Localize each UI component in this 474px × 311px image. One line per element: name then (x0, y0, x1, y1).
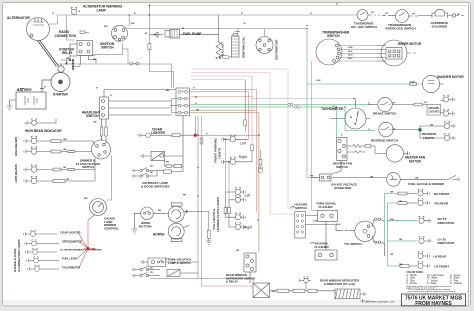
svg-text:HIGH BEAM INDICATOR: HIGH BEAM INDICATOR (25, 129, 62, 133)
tachometer (330, 99, 370, 129)
label trunk or hatch lamp and switch (166, 258, 191, 265)
svg-text:UW: UW (93, 122, 97, 124)
lamp front parking right (222, 157, 252, 164)
svg-text:LGN: LGN (310, 243, 315, 245)
label high beams (14, 137, 18, 156)
svg-text:CONNECTION: CONNECTION (55, 34, 77, 38)
svg-text:INDICATOR: INDICATOR (438, 241, 455, 245)
node gauge lamp feed (87, 247, 90, 250)
svg-text:SWITCH: SWITCH (295, 206, 307, 210)
resistor inline v252 (251, 145, 254, 162)
svg-text:RH REAR: RH REAR (435, 202, 450, 206)
wire green wiper drop (312, 61, 318, 210)
resistor horn drop (206, 212, 212, 245)
svg-text:GR: GR (390, 254, 394, 256)
label heater fan switch (333, 161, 352, 169)
resistor headlight drop 1 (100, 127, 103, 136)
switch door 1 (132, 168, 163, 173)
resistor inline v245 (244, 80, 247, 132)
brake switch (368, 97, 414, 111)
label alternator (7, 16, 30, 20)
svg-text:WIPER MOTOR: WIPER MOTOR (398, 42, 422, 46)
svg-text:STABILIZER: STABILIZER (334, 186, 352, 190)
sender fuel variable resistor (443, 175, 460, 181)
svg-text:OIL PRESSURE/WATER TEMPERATURE: OIL PRESSURE/WATER TEMPERATURE (60, 249, 102, 252)
label rh ts indicator (438, 217, 455, 225)
svg-text:FUEL PUMP: FUEL PUMP (183, 32, 202, 36)
wire red band upper (191, 69, 295, 214)
label oil pressure water temperature (60, 249, 102, 252)
mark bottom credit (360, 299, 395, 304)
label distributor (275, 39, 279, 60)
label cigar lighter (151, 127, 166, 135)
border inner right (468, 4, 470, 306)
resistor rh rear (398, 202, 417, 205)
label fuel gauge and sender (408, 182, 445, 186)
resistor tail 2 (228, 200, 231, 227)
lamp side marker (258, 150, 263, 173)
label tachometer (321, 107, 344, 111)
label rh front (434, 192, 450, 196)
svg-text:TACHOMETER: TACHOMETER (62, 265, 80, 269)
label high beam indicator (25, 129, 62, 133)
label turn signal flasher (316, 202, 337, 210)
svg-text:UR: UR (66, 179, 70, 181)
svg-text:UW: UW (63, 139, 67, 141)
lamp dash illumination 4 (27, 257, 59, 263)
reverse switch (379, 122, 420, 136)
svg-text:LOW BEAMS: LOW BEAMS (14, 164, 18, 183)
lamp rh front (418, 189, 430, 196)
title box (402, 294, 466, 306)
svg-text:SOLENOID: SOLENOID (432, 25, 449, 29)
relay rear defroster (253, 283, 277, 298)
trunk or hatch lamp box (141, 258, 198, 267)
svg-text:UN: UN (272, 291, 276, 293)
label wiper motor (398, 42, 422, 46)
ignition coil (232, 32, 240, 58)
svg-text:CIGAR LIGHTER: CIGAR LIGHTER (60, 230, 81, 234)
svg-text:RW: RW (92, 249, 95, 251)
label left front parking (240, 141, 246, 145)
distributor (256, 37, 273, 54)
svg-text:RW: RW (84, 198, 87, 200)
svg-text:HIGH BEAMS: HIGH BEAMS (14, 137, 18, 156)
svg-text:*TS SWITCH: *TS SWITCH (344, 242, 362, 246)
lamp high beam 2 (24, 147, 51, 155)
svg-text:YR: YR (371, 12, 374, 14)
svg-text:ALTERNATOR: ALTERNATOR (7, 16, 30, 20)
svg-text:STARTER: STARTER (53, 93, 69, 97)
lamp brake 1 (441, 95, 455, 102)
svg-text:UN: UN (236, 250, 240, 252)
wire top main (149, 4, 466, 6)
label low beams (14, 164, 18, 183)
svg-text:WG: WG (131, 23, 135, 25)
wire fuse box feeds left (170, 99, 178, 113)
wire tail feeds (226, 139, 230, 200)
lamp low beam 2 (24, 176, 53, 184)
svg-text:S Slate: S Slate (427, 282, 437, 285)
label right front parking (239, 155, 247, 159)
label transmission interlock (386, 23, 416, 31)
wire warning lamp run (58, 14, 357, 16)
resistor rh front (398, 192, 417, 195)
resistor defroster chain 3 (308, 289, 335, 294)
svg-text:INDICATOR: INDICATOR (438, 221, 455, 225)
cigar lighter (138, 133, 194, 137)
label headlight switch (82, 111, 101, 119)
svg-text:GN: GN (392, 129, 396, 131)
wire starter junction (61, 44, 97, 70)
wire fusebox top drop (149, 5, 173, 88)
label lh front (434, 265, 449, 269)
wire fuse1 out red (188, 90, 257, 212)
rear window defroster switch (244, 253, 256, 283)
svg-text:GW: GW (399, 264, 403, 266)
heater fan motor (386, 145, 409, 162)
wire alternator bottom (58, 64, 172, 88)
lamp brake 2 (441, 109, 455, 116)
svg-text:RELAY: RELAY (62, 51, 73, 55)
label dimmer switch (76, 159, 100, 170)
lamp lh ts indicator (419, 237, 431, 244)
wire wiper switch outputs (335, 46, 377, 62)
label ignition switch (100, 42, 115, 50)
svg-text:GR: GR (399, 201, 403, 203)
resistor defroster chain 2 (293, 289, 308, 292)
radio (141, 116, 183, 166)
node cigar lighter (194, 134, 197, 137)
svg-text:LIGHTS: LIGHTS (429, 110, 440, 114)
svg-text:WG: WG (104, 26, 108, 28)
label hazard flasher (315, 241, 330, 249)
ts switch (305, 218, 384, 256)
svg-text:LGN: LGN (290, 207, 295, 209)
resistor heater coils (347, 145, 386, 154)
label brake lights box (427, 105, 441, 116)
resistor low beam 2 (53, 170, 95, 183)
svg-text:PB: PB (158, 210, 161, 212)
svg-text:Left: Left (245, 194, 251, 198)
label overdrive solenoid (431, 21, 449, 29)
svg-text:GB: GB (370, 177, 374, 179)
lamp luggage (167, 270, 198, 277)
svg-text:LAMP & SWITCH: LAMP & SWITCH (168, 261, 190, 265)
svg-text:ILLUMINATION LAMPS: ILLUMINATION LAMPS (17, 239, 21, 272)
svg-text:& INDICATOR (GT only): & INDICATOR (GT only) (324, 282, 355, 286)
connector washer line (410, 83, 417, 86)
label ignition coil (242, 37, 246, 59)
lamp high beam 1 (24, 136, 51, 144)
svg-text:INTERLOCK SWITCH: INTERLOCK SWITCH (386, 27, 416, 31)
label front parking lights (214, 138, 222, 163)
svg-text:FUEL GAUGE & SENDER: FUEL GAUGE & SENDER (408, 182, 445, 186)
svg-text:RH FRONT: RH FRONT (434, 192, 450, 196)
wire warning lamp left drop (67, 15, 75, 40)
label rear window defroster switch relay (226, 273, 255, 284)
lamp rh rear (418, 199, 430, 206)
hazard flasher (315, 250, 337, 260)
lamp reverse 1 (420, 122, 455, 130)
label cigar lighter lamp (60, 230, 81, 234)
svg-text:DISTRIBUTOR: DISTRIBUTOR (275, 39, 279, 60)
svg-text:W: W (195, 97, 197, 99)
wire ts verticals (385, 194, 418, 267)
fuse box (176, 88, 190, 116)
label starter relay (59, 48, 75, 56)
label hazard switch (295, 203, 308, 211)
lamp lh front (418, 262, 430, 269)
fuse inline main (148, 44, 151, 50)
label right tail (244, 225, 252, 229)
svg-text:FLASHER: FLASHER (319, 205, 334, 209)
lamp dash illumination 5 (28, 265, 59, 271)
wire fuse4 out (188, 111, 259, 253)
label horn button (139, 221, 151, 229)
resistor tail 1 (224, 192, 227, 217)
svg-text:WR: WR (93, 59, 97, 61)
svg-text:PD: PD (150, 166, 153, 168)
svg-text:WASHER MOTOR: WASHER MOTOR (437, 75, 464, 79)
lamp low beam 1 (24, 165, 53, 173)
resistor high beam 1 (51, 140, 95, 145)
svg-text:SWITCH: SWITCH (82, 165, 94, 169)
svg-text:REVERSE SWITCH: REVERSE SWITCH (371, 139, 398, 143)
svg-text:& DOOR SWITCHES: & DOOR SWITCHES (141, 185, 170, 189)
svg-text:UR: UR (63, 167, 67, 169)
svg-text:Left: Left (240, 141, 246, 145)
ignition switch (112, 25, 128, 41)
svg-text:BALLAST: BALLAST (221, 42, 225, 56)
wire tachometer feed (252, 98, 356, 100)
svg-text:UW: UW (63, 149, 67, 151)
svg-text:MOTOR: MOTOR (409, 159, 422, 163)
svg-text:SWITCH: SWITCH (101, 46, 114, 50)
hazard switch (295, 212, 306, 239)
label ts switch (344, 242, 362, 246)
horn 1 (168, 203, 209, 222)
legend color code (407, 271, 463, 293)
wire coil to washer drop (307, 29, 422, 178)
horn 2 (168, 223, 189, 241)
wire dimmer to gauge dimmer (107, 156, 112, 201)
svg-text:PW: PW (310, 176, 313, 178)
cable battery heavy (38, 40, 59, 67)
heater fan switch (337, 138, 348, 161)
label alternator warning lamp (83, 5, 122, 13)
svg-text:PD: PD (150, 272, 153, 274)
svg-text:HORNS: HORNS (153, 232, 165, 236)
svg-text:LGN: LGN (348, 47, 353, 49)
overdrive on-off switch (357, 10, 380, 21)
label lh rear (433, 255, 447, 259)
fuse inline radio (165, 161, 183, 168)
label rh rear (435, 202, 450, 206)
svg-text:+ wire: indicates twin switche: + wire: indicates twin switches, connect… (407, 290, 455, 293)
lamp rh ts indicator (419, 216, 431, 223)
label reverse lights (422, 132, 436, 140)
svg-text:GR: GR (390, 192, 394, 194)
svg-text:P Purple: P Purple (407, 282, 418, 285)
lamp tail left 1 (226, 188, 246, 195)
svg-text:FROM HAYNES: FROM HAYNES (415, 301, 452, 307)
svg-text:W: W (182, 28, 184, 30)
svg-text:GB: GB (415, 177, 419, 179)
label starter (53, 93, 69, 97)
lamp dash illumination 2 (25, 240, 59, 246)
svg-text:RG: RG (196, 109, 200, 111)
svg-text:GLG: GLG (348, 55, 353, 57)
title text (405, 296, 462, 307)
svg-text:YR: YR (457, 14, 460, 16)
connector inline green2 (294, 106, 299, 109)
svg-text:GR: GR (399, 239, 403, 241)
lamp dash illumination 3 (26, 248, 57, 254)
svg-text:SWITCH: SWITCH (86, 114, 99, 118)
svg-text:LGN: LGN (410, 82, 415, 84)
svg-text:MGB WIRING DIAGRAM © 1999: MGB WIRING DIAGRAM © 1999 (365, 301, 395, 304)
label wiper washer switch (322, 31, 350, 39)
switch trunk 2 (132, 273, 160, 278)
resistor headlight drop 2 (105, 127, 108, 136)
fuel gauge (332, 173, 444, 187)
svg-text:Right: Right (244, 225, 252, 229)
label fuel level (62, 256, 78, 260)
lamp courtesy (164, 166, 183, 173)
switch trunk 1 (132, 267, 160, 272)
resistor low beam 1 (53, 158, 95, 171)
label gauge and dash illumination lamps (13, 239, 21, 272)
wire alternator to top (50, 15, 58, 24)
svg-text:LIGHTER: LIGHTER (151, 131, 166, 135)
svg-text:Right: Right (239, 155, 247, 159)
lamp high beam indicator (25, 119, 56, 126)
svg-text:NLG: NLG (348, 58, 353, 60)
switch door 2 (132, 171, 157, 178)
svg-text:GW: GW (390, 219, 394, 221)
svg-text:RLG: RLG (348, 51, 353, 53)
svg-text:LH FRONT: LH FRONT (434, 265, 449, 269)
label lh ts indicator (438, 238, 455, 246)
svg-text:NW: NW (66, 58, 70, 60)
starter relay (77, 41, 93, 56)
svg-text:O Orange: O Orange (450, 282, 462, 285)
svg-text:TACHOMETER: TACHOMETER (321, 107, 344, 111)
svg-text:FUEL LEVEL: FUEL LEVEL (62, 256, 78, 260)
svg-text:ON - OFF SWITCH: ON - OFF SWITCH (351, 25, 377, 29)
turn signal flasher (305, 210, 337, 250)
svg-text:BATTERY: BATTERY (17, 88, 33, 92)
svg-text:IGNITION COIL: IGNITION COIL (242, 37, 246, 59)
svg-text:W: W (244, 23, 246, 25)
label gauge lamp dimmer control (104, 217, 119, 231)
wiper washer switch (316, 39, 342, 65)
label brake switch (373, 112, 396, 116)
svg-text:SWITCH: SWITCH (327, 34, 340, 38)
lamp front parking left (222, 135, 249, 142)
svg-text:PD: PD (150, 172, 153, 174)
svg-text:FLASHER: FLASHER (315, 245, 330, 249)
lamp tail left 2 (229, 195, 245, 202)
fuel pump (150, 30, 219, 39)
lamp dash illumination 1 (24, 230, 57, 236)
wire fuse2 out red (188, 76, 253, 145)
resistor high beam 2 (51, 150, 92, 153)
svg-text:PD: PD (150, 268, 153, 270)
connector inline C1 (129, 62, 139, 65)
lamp tail right 1 (226, 213, 246, 220)
connector brake (414, 103, 427, 106)
svg-text:LH REAR: LH REAR (433, 255, 447, 259)
headlight switch (100, 90, 177, 144)
gauge voltage stabilizer (311, 161, 342, 182)
connector coil line (222, 56, 229, 59)
svg-text:LICENSE PLATE LAMPS: LICENSE PLATE LAMPS (216, 197, 220, 232)
svg-text:GLG: GLG (336, 224, 341, 226)
washer motor (422, 75, 443, 92)
label speedometer lamp (62, 239, 82, 243)
lamp alternator warning (71, 7, 77, 14)
label overdrive switch (351, 22, 377, 30)
svg-text:LIGHTS: LIGHTS (218, 148, 222, 159)
svg-text:YR: YR (412, 13, 415, 15)
svg-text:SWITCH: SWITCH (336, 165, 348, 169)
connector inline green1 (288, 103, 293, 106)
label left tail (245, 194, 251, 198)
svg-text:CONTROL: CONTROL (104, 226, 119, 230)
lamp tail right 2 (229, 223, 245, 230)
label tachometer lamp (62, 265, 80, 269)
label battery (17, 88, 33, 92)
resistor ballast (216, 15, 232, 57)
label courtesy lamp and door switches (141, 181, 170, 189)
svg-text:LGN: LGN (313, 221, 318, 223)
transmission interlock switch (382, 10, 418, 23)
wire ignition to coil (127, 15, 307, 37)
svg-text:PB: PB (183, 194, 186, 196)
wiper motor (377, 40, 416, 66)
resistor lh front (398, 265, 417, 268)
resistor defroster chain 1 (270, 289, 294, 292)
horn button (132, 207, 169, 233)
alternator A1 (27, 18, 50, 41)
wire center verticals (150, 116, 253, 286)
label radio connection (55, 30, 77, 38)
label rear window defroster indicator (320, 279, 359, 286)
starter (42, 64, 70, 92)
svg-text:AN: AN (166, 89, 170, 92)
svg-text:PN: PN (166, 162, 169, 164)
connector inline center (200, 138, 203, 144)
label washer motor (437, 75, 464, 79)
dimmer flash-to-pass switch (92, 140, 111, 159)
svg-text:W: W (145, 33, 147, 35)
svg-text:LGN: LGN (316, 80, 321, 82)
node reverse (418, 128, 422, 132)
label heater fan motor (405, 156, 426, 164)
label fuel pump (183, 32, 202, 36)
gauge lamp dimmer control (90, 199, 107, 216)
radio connection (80, 31, 89, 34)
label tail lights license plate lamps (212, 197, 220, 232)
label horns (153, 232, 165, 236)
lamp lh rear (418, 252, 430, 259)
wire cigar node right (195, 116, 259, 135)
svg-text:BUTTON: BUTTON (139, 224, 151, 228)
wire fuse3 out green (188, 104, 376, 137)
wire ignition to relay (79, 43, 128, 64)
